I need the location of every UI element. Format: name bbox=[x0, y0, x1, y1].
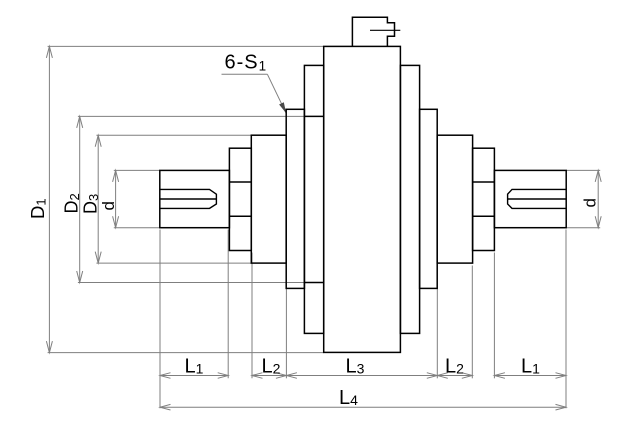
svg-text:d: d bbox=[581, 198, 600, 207]
svg-text:d: d bbox=[99, 201, 118, 210]
